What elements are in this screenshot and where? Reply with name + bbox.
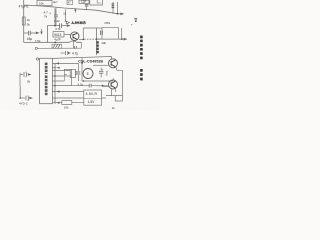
svg-text:A-9H3KB: A-9H3KB: [72, 21, 87, 25]
microphone M1 circle: [83, 69, 93, 79]
box 12F: [79, 0, 89, 3]
svg-text:5k: 5k: [27, 23, 31, 27]
input terminal 1: [35, 47, 37, 49]
pin arrow y103.3: [56, 102, 59, 104]
vertical x47.4: [46, 26, 48, 43]
svg-text:9013: 9013: [54, 33, 61, 37]
arrow earpiece mid: [68, 52, 71, 54]
small box x67: [67, 0, 73, 4]
cap on y85.7: [89, 84, 91, 88]
svg-text:4.5V-R: 4.5V-R: [86, 92, 98, 96]
terminal2 stub: [39, 58, 40, 60]
nested corner: [97, 0, 101, 3]
V1 collector stub to bus: [74, 10, 76, 12]
box right of 12F: [90, 0, 103, 5]
svg-text:+: +: [102, 68, 104, 72]
arrow bus end: [120, 13, 124, 16]
bottom wires y85.7: [52, 85, 109, 87]
svg-text:CB1: CB1: [104, 21, 110, 25]
svg-text:10k: 10k: [64, 106, 69, 110]
vertical glyph marks right of x96 line: [97, 41, 99, 53]
svg-text:4.7μ: 4.7μ: [78, 82, 84, 86]
wire y48.3: [38, 47, 82, 49]
right caption vertical glyph column: [140, 36, 143, 81]
two-row box: [84, 90, 102, 105]
svg-text:4YD-2: 4YD-2: [19, 102, 28, 106]
svg-text:12F: 12F: [81, 0, 87, 4]
wire y28 to CB1 box: [83, 27, 102, 29]
wire hop arc: [70, 41, 77, 42]
junction dots: [19, 9, 122, 99]
connector stack dots: [112, 3, 115, 4]
pin stub y67.7: [52, 67, 56, 69]
pin stub y63.4 wire to cap: [52, 62, 78, 64]
capacitor tick on y48: [75, 46, 77, 49]
wire y81: [82, 80, 113, 82]
line y25.5: [47, 25, 66, 27]
V1 emitter down: [73, 40, 75, 48]
pin arrow y63.4: [56, 62, 59, 64]
svg-text:47k: 47k: [74, 71, 78, 76]
svg-text:1k: 1k: [27, 18, 31, 22]
pin stubs: [52, 71, 71, 86]
vertical x64.3: [63, 69, 65, 81]
left vertical x20.4: [19, 86, 21, 98]
svg-text:2k: 2k: [27, 80, 31, 84]
top bus wire: [24, 5, 121, 14]
box top-left: [37, 0, 52, 5]
transistor V3: [109, 80, 118, 89]
capacitor C3 under 12F box: [86, 4, 88, 11]
svg-text:CSL-CD4952B: CSL-CD4952B: [78, 59, 103, 63]
wire x121.7 vertical: [121, 28, 123, 39]
svg-text:4μ7: 4μ7: [53, 0, 58, 4]
svg-text:47μH1: 47μH1: [19, 5, 29, 9]
input terminal 2: [36, 58, 38, 60]
corner y69.4: [64, 68, 70, 70]
capacitor C5 on box left: [101, 30, 103, 35]
wire y91.6: [52, 91, 83, 93]
pin arrow y67.7: [57, 67, 60, 69]
input arrow glyph before label: [66, 21, 69, 24]
IC part number vertical (drawn glyphs): [45, 63, 48, 96]
svg-text:4μ7F: 4μ7F: [54, 38, 61, 42]
svg-text:4.7k: 4.7k: [55, 27, 61, 31]
box CB1: [102, 28, 119, 39]
svg-text:45μ: 45μ: [27, 37, 33, 41]
connector stack wire: [112, 2, 114, 14]
wire down x65.6: [65, 9, 67, 21]
svg-text:10μ: 10μ: [105, 71, 109, 76]
small blobs right top: [134, 18, 137, 22]
arrow earphone bottom-left: [29, 97, 33, 100]
resistor box bottom: [62, 101, 72, 105]
text labels: [19, 0, 138, 110]
wire y97: [52, 97, 106, 99]
svg-text:10k: 10k: [101, 41, 106, 45]
transistor V2: [109, 59, 118, 68]
transistor V1 circle: [70, 32, 79, 41]
wire y95.6: [106, 95, 122, 97]
long wire y39: [96, 38, 123, 40]
earphone bottom-left: [20, 97, 25, 99]
box 9013: [53, 32, 64, 37]
IC left bus x55: [54, 8, 56, 104]
V3 emitter down: [112, 88, 116, 96]
wire y103.2 with resistor: [52, 102, 83, 104]
arrow down x41.5: [40, 32, 42, 35]
arrows: [28, 3, 128, 104]
arrow on C1 line: [36, 32, 40, 35]
zigzag resistor dashes: [84, 38, 102, 40]
V1 right wire to node: [79, 38, 83, 40]
vertical x78.4 with cap: [77, 64, 79, 82]
junction wire x117.5: [117, 2, 119, 14]
wire y65 M to V2 base: [93, 64, 109, 66]
capacitor C4 plates: [60, 23, 62, 28]
vertical x96.4: [95, 28, 97, 55]
svg-text:1.5V: 1.5V: [88, 100, 96, 104]
electrolytic cap: [100, 68, 102, 78]
svg-text:7k: 7k: [44, 14, 48, 18]
arrow on y25.5 line: [67, 24, 71, 27]
vertical x81.3: [80, 42, 82, 48]
arrow y39 end: [124, 38, 128, 41]
right vertical x71.4: [70, 69, 72, 85]
earphone top-left: [20, 73, 23, 87]
svg-text:2.2k: 2.2k: [54, 19, 60, 23]
vertical x83.3 node: [82, 28, 84, 39]
svg-text:7.5k: 7.5k: [35, 39, 41, 43]
svg-text:4.7μ: 4.7μ: [72, 51, 78, 55]
arrow earphone top-left: [28, 73, 32, 76]
resistor R1: [22, 17, 25, 25]
resistor box vertical: [70, 69, 75, 77]
V1 base wire: [64, 34, 70, 36]
svg-text:47: 47: [68, 1, 72, 5]
capacitor C2 vertical at x56: [55, 8, 57, 25]
earpiece symbol mid: [61, 52, 65, 54]
stub y74.3: [64, 73, 67, 75]
wire long horizontal y42.4 with hop: [24, 41, 82, 43]
svg-text:+: +: [131, 23, 133, 27]
long wire y56.6: [52, 57, 111, 59]
wire x82 down: [81, 58, 83, 81]
hatched box (rheostat): [52, 44, 62, 48]
pin arrow y91.6: [56, 90, 59, 92]
wire left vertical: [23, 0, 25, 42]
capacitor C1: [24, 32, 36, 34]
IC box (vertical DIP): [40, 58, 53, 103]
svg-text:10k: 10k: [39, 1, 44, 5]
